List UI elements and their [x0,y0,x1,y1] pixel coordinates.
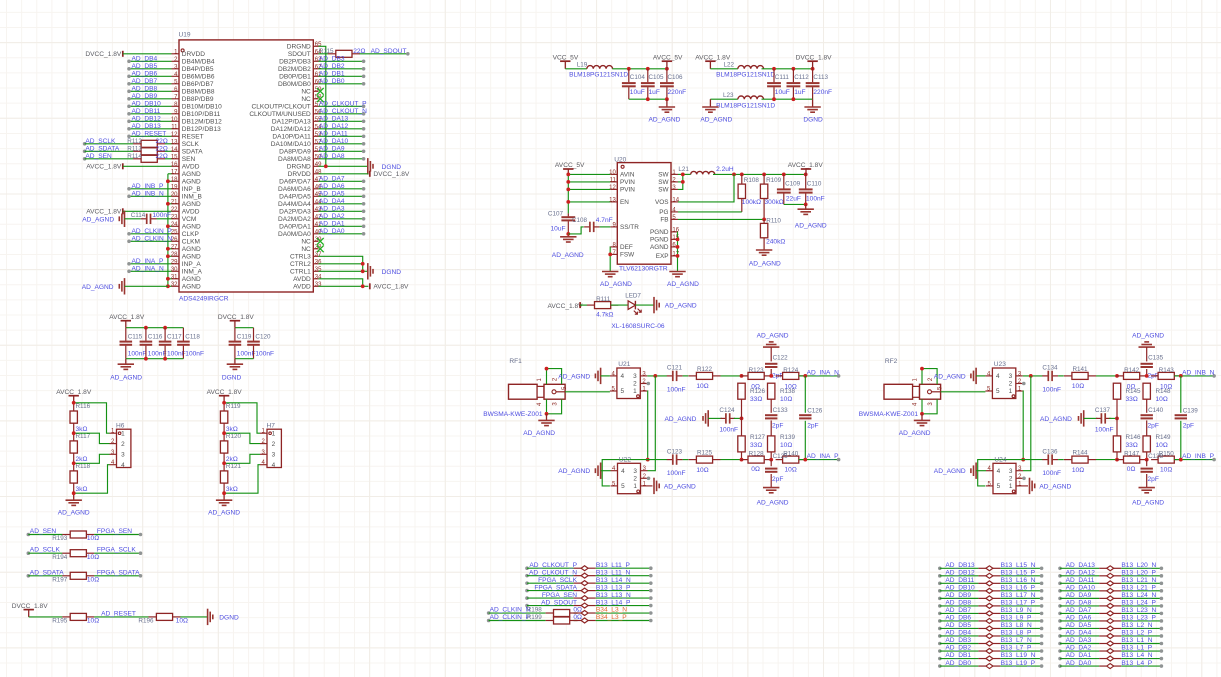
svg-text:18: 18 [171,177,178,183]
svg-text:10Ω: 10Ω [785,467,797,474]
svg-text:17: 17 [171,169,178,175]
svg-text:AD_DA13: AD_DA13 [1066,562,1096,569]
svg-text:AD_DB9: AD_DB9 [132,93,158,100]
svg-text:U21: U21 [618,361,630,368]
capacitor C138 2pF bottom [1146,460,1148,467]
svg-text:31: 31 [171,274,178,280]
svg-text:AD_CLKOUT_P: AD_CLKOUT_P [529,562,577,569]
svg-text:DA4P/DA5: DA4P/DA5 [279,193,311,200]
svg-text:FPGA_SCLK: FPGA_SCLK [538,577,577,584]
resistor R197 10R [62,575,70,577]
wire H7 pin3 [224,454,260,463]
svg-text:BLM18PG121SN1D: BLM18PG121SN1D [569,71,628,78]
svg-text:R124: R124 [783,367,799,374]
wire net AD_DA13 [319,120,364,122]
svg-text:C133: C133 [773,407,789,414]
svg-text:FSW: FSW [620,252,635,259]
svg-text:AVCC_1.8V: AVCC_1.8V [695,54,731,61]
ground AD_AGND at U24 pin4 [975,463,977,479]
svg-text:R111: R111 [596,296,611,303]
wire [1058,375,1064,377]
svg-text:48: 48 [315,169,322,175]
capacitor C118 100nF [182,328,184,341]
wire [123,165,172,167]
wire net AD_INA_P [129,263,172,265]
svg-text:R123: R123 [749,367,765,374]
svg-text:AD_DB9: AD_DB9 [945,592,971,599]
svg-text:34: 34 [315,274,322,280]
svg-text:33Ω: 33Ω [750,442,762,449]
inductor L22 BLM18PG121SN1D [738,66,764,69]
ground AD_AGND at U22 pin1 [648,485,653,487]
wire PGND AGND EXP bus [677,231,680,233]
svg-text:0Ω: 0Ω [573,607,582,614]
svg-text:AD_SCLK: AD_SCLK [85,138,116,145]
capacitor C106 220nF [666,69,668,83]
net tie AD_CLKOUT_P to B13_L11_P [525,566,529,570]
svg-text:AD_DB3: AD_DB3 [945,637,971,644]
svg-text:EN: EN [620,199,629,206]
svg-text:32: 32 [171,282,178,288]
svg-text:AD_DB10: AD_DB10 [945,585,975,592]
svg-text:13: 13 [171,139,178,145]
svg-text:22uF: 22uF [786,195,801,202]
wire H6 pin1 [74,403,110,433]
net tie AD_DA13 to B13_L20_N [1058,567,1062,571]
svg-text:RF1: RF1 [509,358,522,365]
svg-text:10Ω: 10Ω [1072,383,1084,390]
wire AVCC_5V rail [612,68,667,70]
transformer U23 body [992,368,1015,399]
svg-text:AD_DB0: AD_DB0 [319,78,345,85]
svg-text:AVDD: AVDD [182,208,200,215]
resistor R195 10R [62,616,70,618]
wire H7 pin4 [224,465,260,494]
svg-text:R108: R108 [744,177,760,184]
ground DGND below C113 [812,99,814,107]
svg-text:AD_AGND: AD_AGND [934,468,966,475]
wire net AD_DB10 [129,105,172,107]
svg-text:1: 1 [633,388,637,395]
svg-text:19: 19 [171,184,178,190]
svg-text:AD_AGND: AD_AGND [667,281,699,288]
svg-text:AD_DB12: AD_DB12 [132,116,162,123]
svg-text:B13_L21_P: B13_L21_P [1121,585,1156,592]
svg-text:4.7nF: 4.7nF [596,217,613,224]
resistor R194 10R [62,552,70,554]
net tie AD_DA7 to B13_L23_N [1058,612,1062,616]
svg-text:AD_DB4: AD_DB4 [132,56,158,63]
resistor R115 22R on SDOUT pin 64 [319,53,329,55]
svg-text:29: 29 [171,259,178,265]
resistor R128 0R lower [741,459,748,461]
svg-text:R116: R116 [76,403,91,410]
capacitor C139 2pF right [1180,376,1182,413]
svg-text:1uF: 1uF [794,89,805,96]
svg-text:1uF: 1uF [649,89,660,96]
wire U21 pin3 to C [647,375,667,377]
svg-text:AD_DB4: AD_DB4 [945,630,971,637]
wire top rail [235,327,254,329]
wire node B [1096,459,1116,461]
svg-text:AD_DA0: AD_DA0 [1066,660,1092,667]
svg-text:R122: R122 [697,366,713,373]
svg-text:10Ω: 10Ω [785,383,797,390]
wire RF1 shield top [547,369,562,385]
svg-text:AD_DA5: AD_DA5 [1066,622,1092,629]
U19 AGND bus wire [167,174,169,286]
capacitor C122 2pF [765,363,777,365]
ground AD_AGND below C107 [566,232,570,236]
resistor R111 4.7k [587,304,595,306]
svg-text:4: 4 [121,462,125,469]
ground DGND reset row [207,609,209,625]
net tie AD_DB11 to B13_L16_N [938,582,942,586]
svg-text:22Ω: 22Ω [353,48,365,55]
svg-text:DRVDD: DRVDD [288,171,311,178]
wire net AD_CLKOUT_P [319,105,364,107]
svg-text:AD_AGND: AD_AGND [82,284,114,291]
wire net AD_DA8 [319,158,364,160]
svg-text:AD_DA7: AD_DA7 [1066,607,1092,614]
svg-text:2: 2 [272,441,276,448]
svg-text:10Ω: 10Ω [176,618,188,625]
wire [73,403,75,405]
svg-text:10Ω: 10Ω [1160,383,1172,390]
svg-text:AVCC_5V: AVCC_5V [653,54,683,61]
svg-text:FPGA_SEN: FPGA_SEN [542,592,577,599]
svg-text:B34_L3_N: B34_L3_N [596,607,627,614]
wire to output N [799,375,839,377]
wire mid column [741,399,743,436]
svg-text:C140: C140 [1148,407,1164,414]
wire to output P [1174,459,1214,461]
svg-text:B13_L4_P: B13_L4_P [1121,660,1152,667]
svg-text:4: 4 [621,468,625,475]
header H6 body [117,429,131,467]
capacitor C111 10uF [773,69,775,83]
svg-text:0Ω: 0Ω [573,614,582,621]
svg-text:AGND: AGND [182,276,201,283]
svg-text:INM_A: INM_A [182,268,203,275]
svg-text:SCLK: SCLK [182,141,200,148]
svg-text:AD_AGND: AD_AGND [600,281,632,288]
U19 left pins 1-32 [172,53,180,55]
wire net AD_DA5 [319,195,364,197]
capacitor C114 100nF at VCM pin 23 [124,211,126,227]
wire net AD_DA9 [319,150,364,152]
wire [125,285,168,287]
svg-text:B13_L24_N: B13_L24_N [1121,592,1156,599]
svg-text:DB4M/DB4: DB4M/DB4 [182,58,215,65]
svg-text:DA12P/DA13: DA12P/DA13 [272,118,311,125]
svg-text:10Ω: 10Ω [1156,396,1168,403]
wire [611,304,628,306]
svg-text:AD_AGND: AD_AGND [82,216,114,223]
svg-text:B13_L17_P: B13_L17_P [1001,600,1036,607]
svg-text:C107: C107 [548,211,564,218]
capacitor C104 10uF [628,69,630,83]
svg-text:DB4P/DB5: DB4P/DB5 [182,66,214,73]
svg-text:AD_DA0: AD_DA0 [319,228,345,235]
capacitor C134 100nF [1042,375,1048,377]
svg-text:10Ω: 10Ω [1160,467,1172,474]
svg-text:FPGA_SDATA: FPGA_SDATA [97,569,140,576]
resistor R147 0R lower [1116,459,1123,461]
wire net FPGA_SCLK [94,552,140,554]
svg-text:DVCC_1.8V: DVCC_1.8V [373,171,410,178]
svg-text:AVCC_1.8V: AVCC_1.8V [373,284,409,291]
svg-text:AD_DA3: AD_DA3 [319,206,345,213]
wire net AD_DA10 [319,143,364,145]
svg-text:AD_DA11: AD_DA11 [1066,577,1095,584]
svg-text:R126: R126 [750,388,766,395]
svg-text:AD_CLKOUT_N: AD_CLKOUT_N [529,569,577,576]
ground DGND at pin 49 [367,158,369,174]
svg-text:AD_SCLK: AD_SCLK [30,547,61,554]
svg-text:B13_L14_N: B13_L14_N [596,577,631,584]
inductor L21 2.2uH [691,171,715,174]
capacitor C135 2pF [1141,363,1153,365]
svg-text:DGND: DGND [803,117,823,124]
svg-text:B13_L7_P: B13_L7_P [1001,645,1032,652]
svg-text:H6: H6 [116,423,125,430]
svg-text:B13_L7_N: B13_L7_N [1001,637,1032,644]
svg-text:35: 35 [315,267,322,273]
wire net AD_SCLK [27,551,31,555]
svg-text:2: 2 [121,441,125,448]
resistor R139 10R lower [770,435,772,437]
net tie AD_DB7 to B13_L9_N [938,612,942,616]
net tie AD_DB8 to B13_L17_P [938,604,942,608]
wire H7 pin1 [224,403,260,433]
svg-text:AD_AGND: AD_AGND [552,252,584,259]
wire net AD_RESET [129,135,172,137]
svg-text:AD_AGND: AD_AGND [665,416,697,423]
svg-text:10: 10 [171,117,178,123]
resistor R138 10R vertical [770,382,772,384]
svg-text:3kΩ: 3kΩ [76,426,88,433]
wire net AD_DA4 [319,203,364,205]
wire net AD_DB0 [319,83,364,85]
svg-text:U22: U22 [619,457,631,464]
svg-text:VCC_5V: VCC_5V [553,54,579,61]
wire U23 pin3 to C [1023,375,1043,377]
svg-text:10Ω: 10Ω [87,618,99,625]
ground AD_AGND at U21 pin4 [600,368,602,384]
wire net AD_DB2 [319,68,364,70]
svg-text:R117: R117 [76,433,91,440]
svg-text:AD_DB0: AD_DB0 [945,660,971,667]
svg-text:100nF: 100nF [1095,427,1114,434]
svg-text:22Ω: 22Ω [156,153,168,160]
svg-text:AD_AGND: AD_AGND [757,500,789,507]
capacitor C116 100nF [145,328,147,341]
svg-text:2.2uH: 2.2uH [716,166,734,173]
svg-text:240kΩ: 240kΩ [766,239,785,246]
wire U24 pin3 up to top node [1023,376,1031,471]
LED LED7 XL-1608SURC-06 [628,301,635,310]
net tie AD_DB1 to B13_L19_N [938,657,942,661]
svg-text:AD_DA11: AD_DA11 [319,131,348,138]
svg-text:R141: R141 [1073,366,1089,373]
svg-text:AD_DA8: AD_DA8 [319,153,345,160]
svg-text:AD_DA2: AD_DA2 [319,213,345,220]
svg-text:CTRL3: CTRL3 [290,253,311,260]
svg-text:AD_DA9: AD_DA9 [319,146,345,153]
svg-text:CLKOUTP/CLKOUT: CLKOUTP/CLKOUT [252,103,311,110]
ground AD_AGND below C110 [805,204,807,209]
svg-text:AD_DA7: AD_DA7 [319,176,345,183]
svg-text:AGND: AGND [182,171,201,178]
nc dot U23 pin2 [1022,382,1026,386]
svg-text:PGND: PGND [650,229,669,236]
capacitor C126 2pF right [804,376,806,413]
svg-text:10Ω: 10Ω [87,577,99,584]
svg-text:C119: C119 [237,334,252,341]
svg-text:AD_DA10: AD_DA10 [319,138,349,145]
capacitor C133 2pF middle [765,414,777,416]
svg-text:2pF: 2pF [772,476,783,483]
svg-text:FB: FB [660,217,668,224]
capacitor C120 100nF [253,328,255,341]
svg-text:R127: R127 [750,434,766,441]
svg-text:22Ω: 22Ω [156,145,168,152]
ground AD_AGND below RF1 [546,414,548,421]
wire bottom rail [629,98,667,100]
resistor R127 33R lower [741,435,743,437]
svg-text:AD_AGND: AD_AGND [700,117,732,124]
svg-text:10Ω: 10Ω [780,396,792,403]
svg-text:3: 3 [1009,373,1013,380]
svg-text:AD_AGND: AD_AGND [649,117,681,124]
svg-text:DB2M/DB2: DB2M/DB2 [278,66,311,73]
wire net AD_CLKIN_P [129,233,172,235]
svg-text:DGND: DGND [382,164,402,171]
wire RF2 shield top [922,369,937,385]
svg-text:4.7kΩ: 4.7kΩ [596,312,613,319]
svg-text:R110: R110 [766,217,781,224]
svg-text:INP_B: INP_B [182,186,202,193]
svg-text:10: 10 [609,170,616,176]
svg-text:AD_DA5: AD_DA5 [319,191,345,198]
wire [123,53,172,55]
svg-text:2pF: 2pF [1148,422,1159,429]
svg-text:B13_L9_N: B13_L9_N [1001,607,1032,614]
wire net AD_INA_N [129,270,172,272]
svg-text:AD_DB13: AD_DB13 [945,562,975,569]
svg-text:B13_L20_N: B13_L20_N [1121,562,1156,569]
nc dot U22 pin2 [647,477,651,481]
wire net AD_SDATA [27,574,31,578]
svg-text:DB0P/DB1: DB0P/DB1 [279,73,311,80]
svg-text:37: 37 [315,252,322,258]
svg-text:AGND: AGND [650,244,669,251]
net tie AD_DB12 to B13_L15_P [938,574,942,578]
svg-text:1: 1 [633,483,637,490]
U19 DRGND bus on right [319,46,326,166]
svg-text:AD_CLKIN_P: AD_CLKIN_P [490,614,531,621]
svg-text:U24: U24 [994,457,1006,464]
resistor R113 22R on AD_SDATA [83,150,87,154]
net tie AD_DA5 to B13_L2_N [1058,627,1062,631]
svg-text:DB2P/DB3: DB2P/DB3 [279,58,311,65]
svg-text:DB8P/DB9: DB8P/DB9 [182,96,214,103]
svg-text:36: 36 [315,259,322,265]
svg-text:B34_L3_P: B34_L3_P [596,614,627,621]
wire net AD_DB1 [319,75,364,77]
svg-text:B13_L16_P: B13_L16_P [1001,585,1036,592]
capacitor C107 10uF [567,213,569,216]
svg-text:AD_DA13: AD_DA13 [319,116,349,123]
wire RF2 signal [941,391,986,393]
svg-text:100nF: 100nF [152,212,171,219]
svg-text:C125: C125 [773,453,789,460]
svg-text:AD_DA9: AD_DA9 [1066,592,1092,599]
capacitor C113 220nF [812,69,814,83]
svg-text:C112: C112 [794,74,809,81]
svg-text:R112: R112 [127,138,142,145]
svg-text:B13_L20_P: B13_L20_P [1121,570,1156,577]
svg-text:U23: U23 [994,361,1006,368]
regulator U20 TLV62130RGTR body [617,163,671,265]
resistor R117 2k [73,440,75,442]
svg-text:AD_DA4: AD_DA4 [319,198,345,205]
svg-text:AD_DB7: AD_DB7 [945,607,971,614]
svg-text:SDATA: SDATA [182,148,203,155]
resistor R143 10R [1151,375,1158,377]
svg-text:DA6P/DA7: DA6P/DA7 [279,178,311,185]
svg-text:3kΩ: 3kΩ [226,486,238,493]
net tie AD_DB3 to B13_L7_N [938,642,942,646]
svg-text:SEN: SEN [182,156,196,163]
svg-text:10uF: 10uF [551,226,566,233]
svg-text:AVDD: AVDD [293,276,311,283]
svg-text:12: 12 [609,185,616,191]
svg-text:4: 4 [621,373,625,380]
ground AD_AGND below H6 [73,493,75,500]
wire net AD_CLKIN_N [129,240,172,242]
svg-text:CLKOUTM/UNUSED: CLKOUTM/UNUSED [249,111,311,118]
svg-text:L22: L22 [724,62,735,69]
svg-text:DRVDD: DRVDD [182,51,205,58]
svg-text:R120: R120 [226,433,242,440]
svg-text:AD_DB6: AD_DB6 [132,71,158,78]
svg-text:100nF: 100nF [667,470,686,477]
svg-text:DB12P/DB13: DB12P/DB13 [182,126,221,133]
svg-text:FPGA_SEN: FPGA_SEN [97,528,132,535]
net tie AD_DA1 to B13_L4_N [1058,657,1062,661]
ground AD_AGND below C138 [1139,487,1155,489]
svg-text:FPGA_SCLK: FPGA_SCLK [97,547,136,554]
svg-text:R118: R118 [76,463,91,470]
svg-text:DA8M/DA8: DA8M/DA8 [278,156,311,163]
svg-text:AD_DA3: AD_DA3 [1066,637,1092,644]
resistor R125 10R lower [689,459,697,461]
wire [635,304,654,306]
svg-text:0Ω: 0Ω [751,466,760,473]
wire net AD_DB11 [129,113,172,115]
svg-text:AVDD: AVDD [293,283,311,290]
wire cap ground rail [784,203,806,205]
svg-text:NC: NC [301,96,311,103]
svg-text:C121: C121 [667,365,683,372]
svg-text:BLM18PG121SN1D: BLM18PG121SN1D [716,103,775,110]
svg-text:2pF: 2pF [772,422,783,429]
net tie AD_SDOUT to B13_L14_P [525,604,529,608]
svg-text:C135: C135 [1148,355,1164,362]
svg-text:L19: L19 [577,62,588,69]
